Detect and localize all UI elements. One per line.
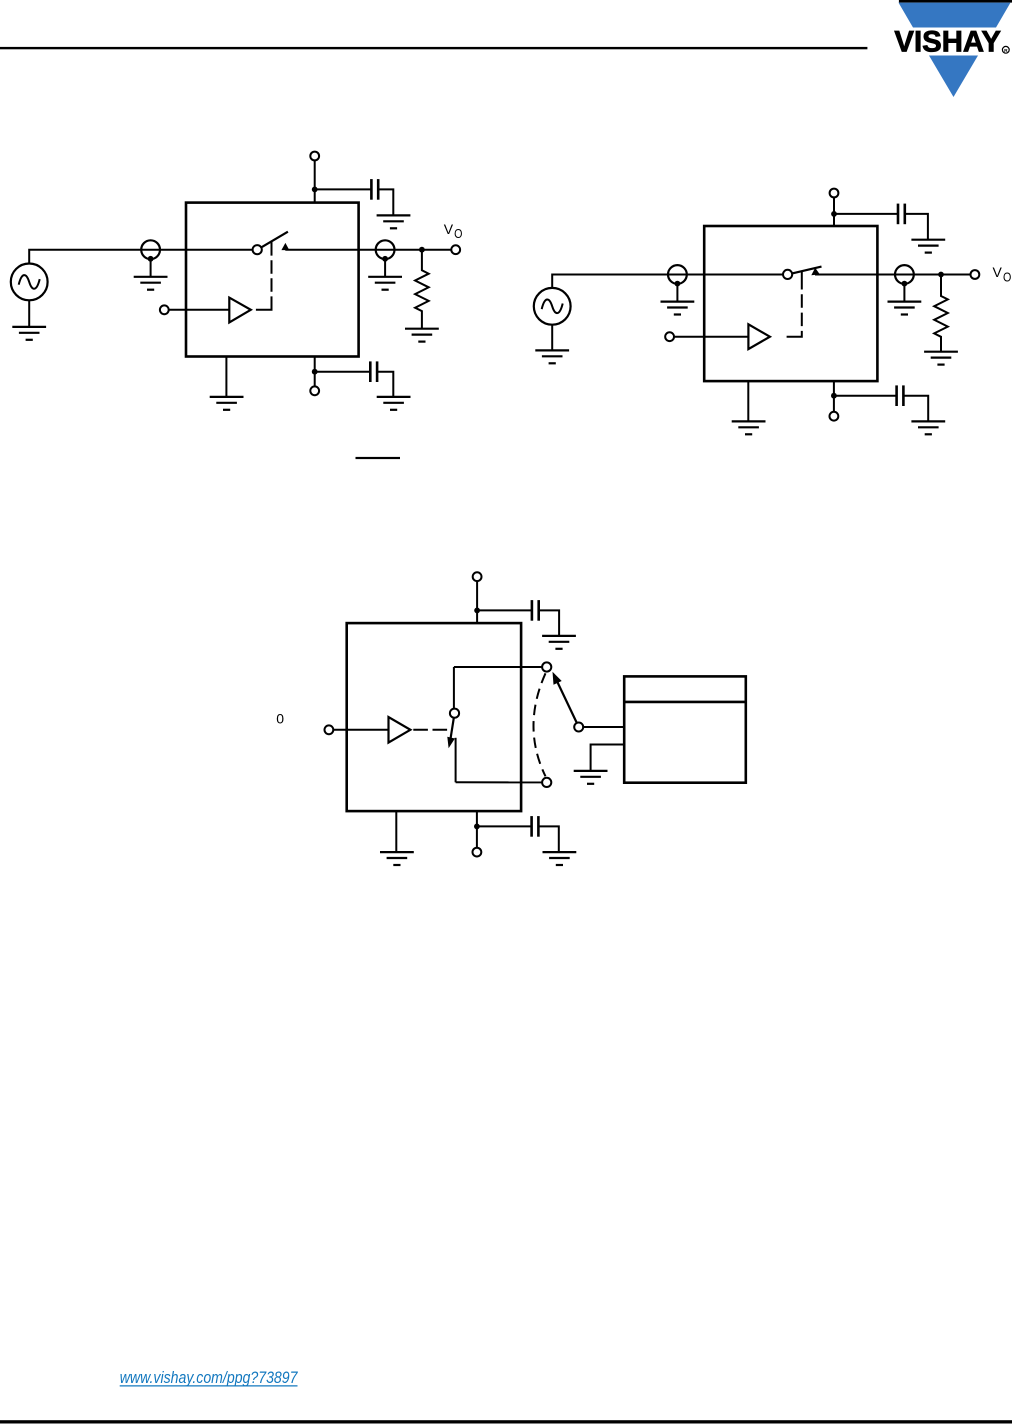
- wire top rail to switch pole: [453, 667, 455, 709]
- wire V2 to IC input: [552, 275, 783, 288]
- wire V- to bypass cap C4: [834, 395, 897, 397]
- ground of C6: [543, 852, 577, 865]
- buffer driver A1: [229, 298, 251, 323]
- wire load box to ground: [591, 745, 625, 771]
- output node junction: [419, 247, 425, 253]
- ground of RL2: [924, 352, 958, 365]
- NO contact circle: [542, 662, 551, 671]
- wire switch to output terminal: [285, 249, 451, 251]
- ground of load box: [574, 771, 608, 784]
- V- node junction: [312, 369, 318, 375]
- footer bar: [0, 1420, 1012, 1423]
- svg-text:O: O: [454, 227, 462, 241]
- switch pole circle: [783, 270, 792, 279]
- wire V+ pin: [314, 160, 316, 202]
- svg-text:0: 0: [276, 711, 284, 727]
- output node junction: [938, 272, 944, 278]
- ground of RL: [405, 329, 439, 342]
- svg-text:V: V: [444, 221, 454, 237]
- wire switch to output terminal: [815, 274, 971, 276]
- external switch arm: [557, 682, 577, 723]
- switch throw arrowhead: [811, 268, 820, 276]
- label VO: [993, 264, 1012, 284]
- NC contact circle: [542, 778, 551, 787]
- wire C6 to ground: [538, 826, 558, 852]
- wire C3 to ground: [905, 214, 928, 240]
- bypass capacitor C2: [370, 361, 377, 382]
- top rail wire: [454, 666, 542, 668]
- wire GND pin left: [225, 357, 227, 397]
- output terminal: [451, 245, 460, 254]
- wire pole to load box: [583, 726, 624, 728]
- wire GND pin left: [395, 811, 397, 852]
- Vishay logo registered trademark symbol: [1002, 46, 1009, 54]
- ground of C5: [542, 636, 576, 649]
- wire control input to buffer: [674, 336, 748, 338]
- svg-text:www.vishay.com/ppg?73897: www.vishay.com/ppg?73897: [120, 1369, 299, 1387]
- probe P3 with ground: [661, 265, 695, 314]
- svg-text:VISHAY: VISHAY: [894, 26, 1001, 59]
- V+ supply terminal: [310, 152, 319, 161]
- buffer driver A2: [748, 324, 770, 349]
- footer link: [120, 1369, 299, 1387]
- V- supply terminal: [830, 412, 839, 421]
- wire V+ to bypass cap C3: [834, 213, 898, 215]
- load box divider line: [624, 701, 746, 704]
- wire V+ pin: [476, 581, 478, 623]
- probe P2 with ground: [368, 240, 402, 289]
- wire V+ to bypass cap C1: [315, 188, 372, 190]
- wire V- to bypass cap C2: [315, 371, 371, 373]
- wire V- pin: [476, 811, 478, 848]
- svg-text:R: R: [1004, 48, 1008, 54]
- junction V+ node: [831, 211, 837, 217]
- V- node junction: [474, 824, 480, 830]
- buffer driver A3: [389, 717, 411, 743]
- wire V- pin: [833, 381, 835, 412]
- junction V+ node: [312, 187, 318, 193]
- probe P4 with ground: [888, 265, 922, 314]
- load resistor RL2: [934, 275, 948, 352]
- wire V+ pin: [833, 197, 835, 226]
- bypass capacitor C4: [897, 385, 904, 406]
- caption overline: [356, 457, 401, 459]
- switch arm (down): [450, 718, 454, 742]
- load instrument box: [624, 676, 746, 782]
- switch throw arrowhead: [281, 243, 289, 250]
- junction V+ node: [474, 608, 480, 614]
- Vishay logo upper blue trapezoid: [899, 3, 1011, 28]
- bypass capacitor C3: [898, 204, 905, 225]
- wire control input to buffer: [169, 309, 230, 311]
- V+ supply terminal: [473, 572, 482, 581]
- dashed control line from buffer to switch: [787, 272, 802, 337]
- svg-text:V: V: [993, 264, 1003, 280]
- IC box U3: [347, 623, 521, 811]
- logic input terminal: [325, 725, 334, 734]
- bypass capacitor C5: [532, 600, 539, 621]
- wire V+ to bypass cap C5: [477, 609, 532, 611]
- ground below AC source V1: [12, 300, 46, 340]
- wire GND pin left: [747, 381, 749, 421]
- ground of C1: [377, 215, 411, 228]
- ground of C4: [911, 421, 945, 434]
- switch arm arrowhead: [447, 737, 455, 749]
- switch arm (closed): [792, 267, 821, 274]
- probe P1 with ground: [134, 240, 168, 289]
- ground of GND pin: [210, 397, 244, 410]
- control input terminal: [665, 332, 674, 341]
- dashed control line from buffer to switch: [413, 729, 447, 731]
- AC source V2: [534, 288, 571, 325]
- IC box U2: [704, 226, 877, 381]
- Vishay logo lower blue triangle: [929, 56, 978, 98]
- ground of C2: [377, 397, 411, 410]
- bottom rail wire: [456, 781, 542, 783]
- IC box U1: [186, 203, 359, 357]
- wire V- to bypass cap C6: [477, 825, 532, 827]
- ground of C3: [911, 240, 945, 253]
- label VO: [444, 221, 463, 242]
- V+ supply terminal: [830, 189, 839, 198]
- Vishay logo top black bar: [899, 0, 1012, 3]
- control input terminal: [160, 305, 169, 314]
- wire input to buffer: [333, 729, 388, 731]
- AC source V1: [11, 264, 48, 301]
- ground below AC source V2: [535, 325, 569, 364]
- external switch arrowhead: [553, 672, 562, 685]
- wire C2 to ground: [377, 372, 393, 397]
- bypass capacitor C1: [371, 179, 378, 200]
- external switch pole circle: [574, 723, 583, 732]
- bypass capacitor C6: [532, 816, 539, 837]
- ground of GND pin: [732, 421, 766, 434]
- V- supply terminal: [310, 386, 319, 395]
- dashed throw arc: [534, 673, 546, 776]
- dashed control line from buffer to switch: [256, 242, 272, 310]
- V- supply terminal: [473, 848, 482, 857]
- output terminal: [971, 270, 980, 279]
- load resistor RL: [415, 250, 429, 329]
- switch pole circle: [450, 709, 459, 718]
- wire C5 to ground: [539, 610, 559, 636]
- wire V1 to IC input: [29, 250, 253, 264]
- wire C1 to ground: [378, 189, 393, 215]
- wire V- pin: [314, 357, 316, 387]
- wire C4 to ground: [903, 396, 928, 422]
- ground of GND pin: [380, 852, 414, 865]
- header rule: [0, 47, 867, 49]
- wire arrow to bottom rail: [455, 738, 457, 783]
- V- node junction: [831, 393, 837, 399]
- switch arm (open): [261, 232, 288, 248]
- svg-text:O: O: [1003, 271, 1011, 285]
- switch pole circle: [253, 245, 262, 254]
